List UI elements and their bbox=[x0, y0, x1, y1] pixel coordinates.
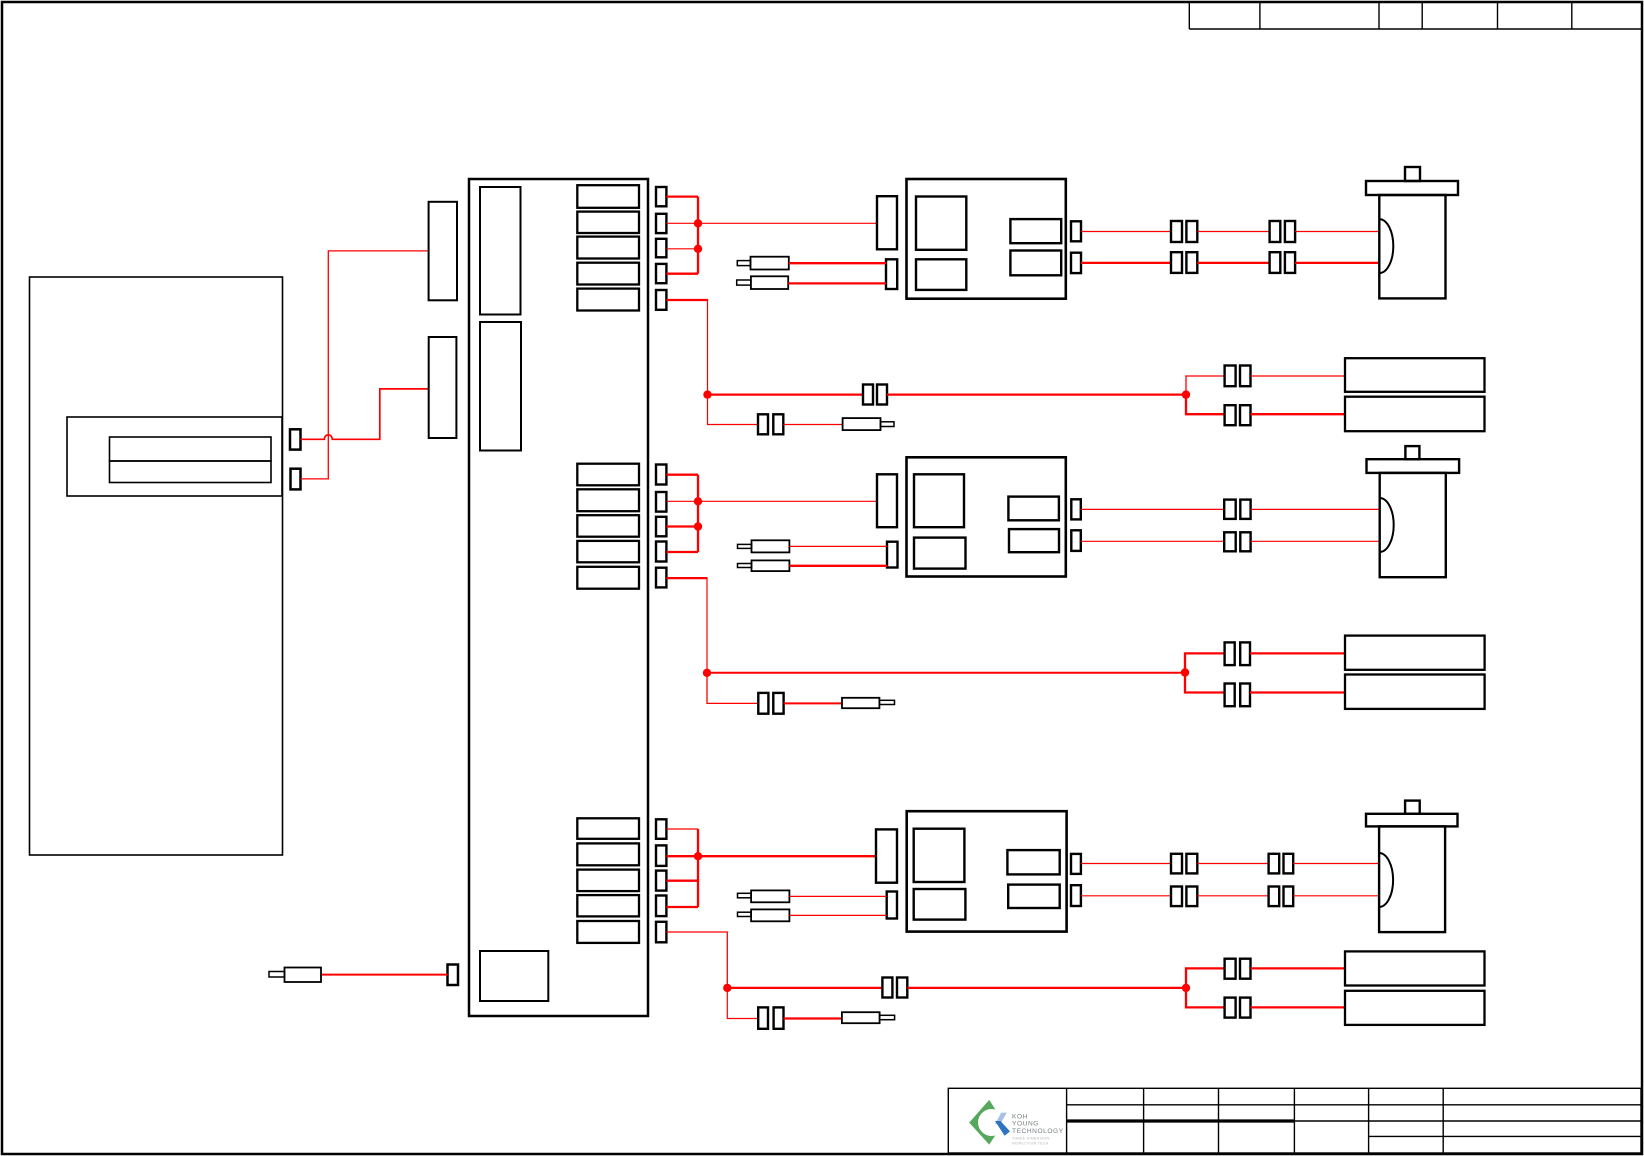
Koh Young logo wordmark bbox=[1012, 1113, 1064, 1135]
encoder connector B bbox=[877, 474, 897, 527]
svg-text:YOUNG: YOUNG bbox=[1012, 1121, 1039, 1128]
pin C3 on controller edge bbox=[656, 871, 666, 891]
inline connector C-fan2 right half bbox=[1240, 998, 1251, 1018]
svg-text:THREE DIMENSION: THREE DIMENSION bbox=[1012, 1137, 1049, 1141]
junction dot C3 bbox=[1182, 984, 1190, 992]
pin C2 on controller edge bbox=[656, 845, 666, 866]
terminal label A2 bbox=[577, 212, 639, 233]
panel slot bar 2 bbox=[110, 461, 272, 483]
wire pin A4 bbox=[666, 273, 698, 275]
inline connector A-enc2 left half bbox=[1270, 221, 1281, 242]
driver C module left-top bbox=[914, 829, 965, 882]
wire plug B1 to power connector B bbox=[789, 545, 887, 547]
power plug B2 body bbox=[752, 560, 790, 571]
junction dot A1 bbox=[694, 219, 702, 227]
sensor plug B body bbox=[842, 698, 879, 708]
fan branch C lower bbox=[1186, 988, 1225, 1008]
Koh Young logo green diamond bbox=[969, 1100, 1004, 1145]
terminal label C2 bbox=[577, 843, 639, 865]
aux branch C down bbox=[727, 988, 758, 1019]
Koh Young logo tagline bbox=[1012, 1137, 1049, 1146]
motor A encoder wire segment 1 bbox=[1081, 231, 1171, 233]
aux branch B down bbox=[707, 673, 758, 704]
motor C connector bulge bbox=[1379, 853, 1393, 907]
inline connector A-aux left half bbox=[863, 385, 873, 405]
motor A shaft tab bbox=[1405, 167, 1420, 181]
motor driver C box bbox=[907, 811, 1067, 931]
power plug C2 pin bbox=[738, 912, 752, 916]
power plug A1 pin bbox=[737, 261, 750, 266]
inline connector C-fan2 left half bbox=[1225, 998, 1236, 1018]
motor C encoder wire segment 2 bbox=[1197, 863, 1268, 865]
wire to sensor plug B bbox=[784, 702, 842, 704]
power plug pin bbox=[269, 972, 285, 978]
wire pin B5 horizontal bbox=[666, 577, 707, 579]
motor driver A box bbox=[907, 179, 1066, 299]
aux bus A segment 2 bbox=[887, 393, 1186, 395]
aux branch A down bbox=[708, 395, 759, 425]
inline connector C-pwr1 left half bbox=[1171, 887, 1182, 907]
Koh Young logo white C disc bbox=[978, 1109, 1005, 1136]
wire pin B4 bbox=[666, 551, 698, 553]
wire to fan unit B1 bbox=[1250, 652, 1345, 654]
wire pin A2 bbox=[666, 222, 698, 224]
pin B5 on controller edge bbox=[656, 568, 666, 588]
wire plug C2 to power connector C bbox=[789, 914, 886, 916]
driver C module right-bottom bbox=[1008, 885, 1059, 908]
svg-text:INSPECTION TECH: INSPECTION TECH bbox=[1012, 1142, 1049, 1146]
pin C5 on controller edge bbox=[656, 922, 666, 943]
motor B encoder wire segment 2 bbox=[1251, 508, 1380, 510]
inline connector B-branch right half bbox=[773, 693, 783, 714]
terminal label A4 bbox=[577, 263, 639, 285]
driver B module right-top bbox=[1008, 497, 1059, 521]
power plug A1 body bbox=[751, 257, 789, 270]
motor A body bbox=[1379, 195, 1445, 298]
inline connector C-pwr2 left half bbox=[1269, 887, 1280, 907]
inline connector A-enc1 right half bbox=[1186, 221, 1197, 242]
controller left connector bbox=[448, 965, 459, 986]
wire pin C2 bbox=[666, 855, 698, 857]
junction dot A4 bbox=[1182, 390, 1190, 398]
motor A connector bulge bbox=[1379, 219, 1393, 273]
power plug C2 body bbox=[751, 909, 789, 921]
inline connector B-pwr right half bbox=[1240, 532, 1250, 551]
fan unit C2 bbox=[1345, 991, 1485, 1025]
junction dot B1 bbox=[694, 497, 702, 505]
driver B module left-bottom bbox=[914, 538, 966, 569]
motor B flange cap bbox=[1367, 459, 1460, 473]
motor driver B box bbox=[907, 457, 1066, 576]
inline connector B-enc right half bbox=[1240, 500, 1250, 519]
inline connector A-branch right half bbox=[773, 414, 783, 434]
inline connector B-fan2 right half bbox=[1240, 684, 1250, 707]
wire to sensor plug A bbox=[783, 424, 842, 426]
inline connector C-fan1 right half bbox=[1240, 959, 1251, 979]
motor C body bbox=[1379, 826, 1445, 932]
fan branch A upper bbox=[1186, 376, 1225, 395]
junction dot B4 bbox=[1181, 668, 1189, 676]
pin A2 on controller edge bbox=[656, 214, 666, 233]
Koh Young logo chevron light blue bbox=[995, 1113, 1007, 1124]
power plug A2 pin bbox=[737, 280, 751, 285]
pin B2 on controller edge bbox=[656, 492, 666, 512]
driver C output pin top bbox=[1071, 854, 1081, 874]
inline connector A-aux right half bbox=[877, 385, 887, 405]
fan unit C1 bbox=[1345, 951, 1485, 985]
inline connector C-aux right half bbox=[897, 978, 907, 998]
motor C power wire segment 1 bbox=[1081, 895, 1171, 897]
inline connector A-enc2 right half bbox=[1285, 221, 1295, 242]
fan unit B1 bbox=[1345, 636, 1485, 670]
wire to fan unit B2 bbox=[1250, 691, 1345, 693]
terminal label B3 bbox=[577, 515, 639, 537]
motor B body bbox=[1380, 473, 1446, 577]
terminal label B4 bbox=[577, 541, 639, 562]
inline connector A-pwr2 right half bbox=[1285, 252, 1295, 273]
terminal label A5 bbox=[577, 289, 639, 311]
controller module slot 2 bbox=[480, 322, 521, 451]
fan branch B upper bbox=[1185, 653, 1225, 672]
pin A3 on controller edge bbox=[656, 239, 666, 257]
motor A flange cap bbox=[1366, 181, 1458, 195]
svg-text:KOH: KOH bbox=[1012, 1113, 1028, 1120]
aux bus C segment 2 bbox=[907, 987, 1186, 989]
pin C1 on controller edge bbox=[656, 819, 666, 839]
junction dot B2 bbox=[694, 522, 702, 530]
inline connector C-branch left half bbox=[758, 1007, 768, 1028]
wire pin C1 bbox=[666, 828, 698, 830]
driver A module right-top bbox=[1010, 219, 1061, 243]
driver B output pin bottom bbox=[1071, 530, 1081, 551]
inline connector A-pwr2 left half bbox=[1270, 252, 1281, 273]
wire pin B5 vertical bbox=[706, 577, 708, 673]
inline connector A-branch left half bbox=[758, 414, 768, 434]
wire plug A2 to power connector A bbox=[788, 282, 886, 284]
wire power plug to controller left connector bbox=[321, 974, 448, 976]
inner panel box bbox=[67, 417, 282, 496]
inline connector B-enc left half bbox=[1224, 500, 1236, 519]
inline connector A-fan1 right half bbox=[1240, 366, 1251, 387]
inline connector B-branch left half bbox=[758, 693, 768, 714]
motor A power wire segment 2 bbox=[1197, 262, 1269, 264]
wire plug B2 to power connector B bbox=[789, 565, 887, 567]
junction dot C2 bbox=[723, 984, 731, 992]
wire to fan unit A1 bbox=[1251, 375, 1346, 377]
power plug B1 pin bbox=[738, 544, 752, 548]
inline connector C-fan1 left half bbox=[1225, 959, 1236, 979]
wire pin B2 bbox=[666, 500, 698, 502]
wire to encoder connector C bbox=[698, 855, 876, 857]
panel slot bar 1 bbox=[110, 437, 272, 461]
driver A module left-top bbox=[916, 197, 966, 250]
inline connector C-branch right half bbox=[774, 1007, 784, 1028]
terminal label B1 bbox=[577, 464, 639, 486]
sensor plug B pin bbox=[879, 700, 894, 704]
inline connector C-enc1 left half bbox=[1171, 854, 1182, 874]
driver A output pin bottom bbox=[1071, 253, 1081, 273]
inline connector B-fan1 right half bbox=[1240, 642, 1250, 665]
wire plug A1 to power connector A bbox=[789, 262, 886, 264]
wire bus C vertical bbox=[697, 829, 699, 907]
inline connector C-enc1 right half bbox=[1186, 854, 1197, 874]
power plug C1 pin bbox=[738, 893, 752, 898]
wire pin A3 bbox=[666, 248, 698, 250]
power plug A2 body bbox=[751, 276, 788, 289]
motor A encoder wire segment 2 bbox=[1197, 231, 1269, 233]
motor B connector bulge bbox=[1380, 498, 1394, 552]
wire pin B3 bbox=[666, 525, 698, 527]
inline connector B-fan1 left half bbox=[1225, 642, 1235, 665]
aux bus C segment 1 bbox=[727, 987, 882, 989]
terminal label B2 bbox=[577, 489, 639, 511]
terminal label A1 bbox=[577, 185, 639, 208]
inline connector B-pwr left half bbox=[1224, 532, 1236, 551]
encoder connector A bbox=[877, 196, 897, 249]
driver C module left-bottom bbox=[914, 889, 966, 920]
driver C module right-top bbox=[1007, 850, 1059, 874]
motor C shaft tab bbox=[1405, 801, 1420, 814]
wire plug C1 to power connector C bbox=[789, 895, 886, 897]
wire bus A vertical bbox=[697, 197, 699, 274]
power plug B2 pin bbox=[738, 564, 752, 568]
motor A encoder wire segment 3 bbox=[1295, 231, 1379, 233]
inline connector A-fan2 right half bbox=[1240, 405, 1251, 425]
wire to fan unit C1 bbox=[1251, 967, 1346, 969]
motor C power wire segment 2 bbox=[1197, 895, 1268, 897]
wire to sensor plug C bbox=[784, 1017, 842, 1019]
fan branch A lower bbox=[1186, 395, 1225, 415]
terminal label C4 bbox=[577, 895, 639, 916]
wire to encoder connector B bbox=[698, 500, 877, 502]
motor C encoder wire segment 3 bbox=[1293, 863, 1379, 865]
junction dot C1 bbox=[694, 852, 702, 860]
power plug B1 body bbox=[752, 540, 790, 552]
power connector B bbox=[887, 542, 898, 568]
terminal label A3 bbox=[577, 237, 639, 259]
power plug C1 body bbox=[751, 890, 789, 902]
interface card 2 bbox=[429, 337, 457, 438]
motor C encoder wire segment 1 bbox=[1081, 863, 1171, 865]
pin B1 on controller edge bbox=[656, 465, 666, 485]
svg-text:TECHNOLOGY: TECHNOLOGY bbox=[1012, 1128, 1064, 1135]
power connector A bbox=[886, 259, 897, 289]
pin A5 on controller edge bbox=[656, 290, 666, 310]
wire pin A5 vertical bbox=[707, 299, 709, 395]
inline connector C-enc2 right half bbox=[1284, 854, 1294, 874]
driver B module left-top bbox=[914, 474, 964, 527]
aux bus B bbox=[707, 672, 1185, 674]
inline connector C-enc2 left half bbox=[1269, 854, 1280, 874]
inline connector C-pwr1 right half bbox=[1186, 887, 1197, 907]
connector J2 on rack bbox=[291, 469, 301, 490]
controller io module bbox=[480, 951, 548, 1001]
driver B output pin top bbox=[1071, 499, 1081, 519]
inline connector C-aux left half bbox=[882, 978, 892, 998]
motor B power wire segment 1 bbox=[1081, 540, 1224, 542]
pin A4 on controller edge bbox=[656, 264, 666, 283]
top-right revision table bbox=[1189, 3, 1641, 30]
motor A power wire segment 3 bbox=[1295, 262, 1379, 264]
pin A1 on controller edge bbox=[656, 187, 666, 206]
wire bus B vertical bbox=[697, 475, 699, 552]
fan unit A2 bbox=[1345, 397, 1485, 432]
terminal label C3 bbox=[577, 870, 639, 892]
terminal label C1 bbox=[577, 818, 639, 839]
Koh Young logo chevron dark blue bbox=[995, 1121, 1010, 1136]
sensor plug C pin bbox=[880, 1015, 895, 1019]
inline connector A-pwr1 left half bbox=[1171, 252, 1182, 273]
driver B module right-bottom bbox=[1009, 529, 1059, 552]
inline connector B-fan2 left half bbox=[1225, 684, 1235, 707]
junction dot A3 bbox=[703, 390, 711, 398]
wire pin A1 bbox=[666, 195, 698, 197]
sensor plug A pin bbox=[881, 422, 895, 427]
pin C4 on controller edge bbox=[656, 896, 666, 917]
wire to fan unit C2 bbox=[1251, 1006, 1346, 1008]
connector J1 on rack bbox=[290, 429, 301, 449]
wire pin C3 bbox=[666, 880, 698, 882]
wire J2 to interface card 1 bbox=[301, 251, 429, 479]
interface card 1 bbox=[429, 202, 457, 300]
driver A module left-bottom bbox=[916, 259, 966, 290]
driver A module right-bottom bbox=[1010, 251, 1061, 276]
title block table bbox=[948, 1088, 1641, 1153]
junction dot B3 bbox=[703, 669, 711, 677]
wire pin C4 bbox=[666, 906, 698, 908]
fan branch B lower bbox=[1185, 673, 1225, 693]
inline connector A-pwr1 right half bbox=[1186, 252, 1197, 273]
inline connector A-enc1 left half bbox=[1171, 221, 1182, 242]
motor B shaft tab bbox=[1405, 446, 1419, 459]
power plug body bbox=[285, 968, 322, 983]
main controller board bbox=[469, 179, 648, 1016]
motor C flange cap bbox=[1366, 814, 1458, 827]
motor A power wire segment 1 bbox=[1081, 262, 1171, 264]
motor C power wire segment 3 bbox=[1293, 895, 1379, 897]
pin B4 on controller edge bbox=[656, 542, 666, 562]
wire J1 to interface card 2 (with crossover hop) bbox=[301, 389, 429, 439]
wire to encoder connector A bbox=[698, 222, 877, 224]
junction dot A2 bbox=[694, 245, 702, 253]
wire pin A5 horizontal bbox=[666, 299, 707, 301]
encoder connector C bbox=[876, 829, 897, 882]
fan branch C upper bbox=[1186, 968, 1225, 988]
fan unit A1 bbox=[1345, 358, 1485, 392]
system rack box bbox=[30, 277, 283, 855]
driver C output pin bottom bbox=[1071, 885, 1081, 906]
motor B power wire segment 2 bbox=[1251, 540, 1380, 542]
wire pin C5 bbox=[666, 932, 727, 988]
inline connector C-pwr2 right half bbox=[1284, 887, 1294, 907]
inline connector A-fan2 left half bbox=[1225, 405, 1236, 425]
motor B encoder wire segment 1 bbox=[1081, 508, 1224, 510]
pin B3 on controller edge bbox=[656, 517, 666, 537]
terminal label C5 bbox=[577, 921, 639, 943]
aux bus A segment 1 bbox=[708, 393, 864, 395]
sensor plug A body bbox=[843, 418, 881, 430]
controller module slot 1 bbox=[480, 187, 521, 315]
terminal label B5 bbox=[577, 567, 639, 589]
inline connector A-fan1 left half bbox=[1225, 366, 1236, 387]
fan unit B2 bbox=[1345, 675, 1485, 709]
sensor plug C body bbox=[842, 1012, 880, 1023]
driver A output pin top bbox=[1071, 221, 1081, 241]
wire pin B1 bbox=[666, 474, 698, 476]
wire to fan unit A2 bbox=[1251, 413, 1346, 415]
power connector C bbox=[887, 892, 897, 919]
